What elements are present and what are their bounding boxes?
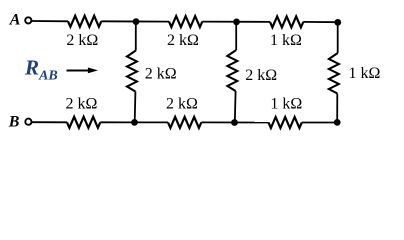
wire node 2 down to resistor R8 xyxy=(235,22,237,50)
svg-text:2 kΩ: 2 kΩ xyxy=(167,32,199,49)
svg-text:RAB: RAB xyxy=(24,56,58,84)
wire from R6 to bottom right corner xyxy=(302,122,338,124)
svg-text:1 kΩ: 1 kΩ xyxy=(270,95,302,112)
wire top right corner down to resistor R9 xyxy=(337,22,339,53)
wire node 1 down to resistor R7 xyxy=(135,22,137,51)
resistor R7 2 kOhm (vertical left) xyxy=(127,51,137,92)
junction node 1 (top) xyxy=(133,18,140,25)
junction node 2 (top) xyxy=(233,19,240,26)
resistor R5 2 kOhm (bottom middle) xyxy=(168,117,201,128)
resistor R6 1 kOhm (bottom right) xyxy=(269,117,302,128)
terminal B open circle xyxy=(25,119,31,125)
svg-text:1 kΩ: 1 kΩ xyxy=(270,32,302,49)
wire resistor R8 down to node 4 xyxy=(234,91,237,123)
terminal A open circle xyxy=(25,17,31,23)
svg-text:2 kΩ: 2 kΩ xyxy=(66,95,98,112)
wire from terminal B to resistor R4 xyxy=(32,121,67,123)
resistor R2 2 kOhm (top middle) xyxy=(169,16,202,27)
svg-text:1 kΩ: 1 kΩ xyxy=(349,65,381,82)
resistor R3 1 kOhm (top right) xyxy=(270,16,303,27)
wire from terminal A to resistor R1 xyxy=(32,20,68,22)
resistor R1 2 kOhm (top left) xyxy=(68,16,101,27)
svg-text:2 kΩ: 2 kΩ xyxy=(166,96,198,113)
wire from R3 to top right corner xyxy=(303,21,338,23)
wire from R2 to node 2 xyxy=(202,21,270,23)
junction node bottom right corner xyxy=(334,119,341,126)
resistor R9 1 kOhm (vertical right) xyxy=(329,53,339,94)
svg-text:2 kΩ: 2 kΩ xyxy=(145,66,177,83)
svg-text:2 kΩ: 2 kΩ xyxy=(245,67,277,84)
wire resistor R9 down to bottom right corner xyxy=(336,94,338,123)
arrow indicating R_AB looking direction xyxy=(67,70,90,72)
junction node 4 (bottom) xyxy=(231,119,238,126)
svg-text:A: A xyxy=(9,12,21,29)
wire from R1 to node 1 xyxy=(101,20,169,22)
wire resistor R7 down to node 3 xyxy=(134,92,137,123)
wire from R4 to node 3 xyxy=(100,121,168,123)
wire from R5 to node 4 xyxy=(201,121,268,123)
junction node top right corner xyxy=(334,19,341,26)
svg-text:2 kΩ: 2 kΩ xyxy=(66,32,98,49)
junction node 3 (bottom) xyxy=(131,119,138,126)
svg-text:B: B xyxy=(8,114,20,131)
resistor R8 2 kOhm (vertical middle) xyxy=(227,50,237,91)
resistor R4 2 kOhm (bottom left) xyxy=(67,117,100,128)
